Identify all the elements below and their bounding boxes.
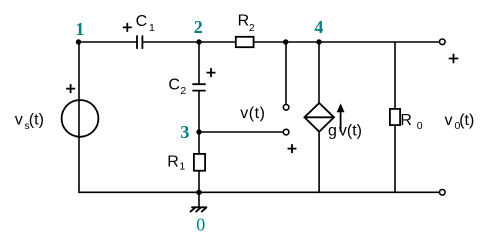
svg-text:C: C [136,13,148,30]
wire node1 to C1 [79,41,137,43]
svg-text:v(t): v(t) [240,105,265,122]
wire node3 to v(t) terminal [199,131,283,133]
plus sign at v(t) [288,144,297,153]
junction node 3 [196,129,201,134]
wire left branch through source [78,42,80,192]
svg-text:0: 0 [417,120,423,132]
svg-text:3: 3 [180,122,189,142]
junction at v(t) tap [283,39,288,44]
terminal circle output bottom [440,190,446,196]
wire node3 to R1 [198,132,200,153]
wire bottom rail [79,191,439,193]
wire C2 to node3 [198,91,200,132]
terminal circle v(t) upper [283,105,289,111]
capacitor C2 [193,84,205,90]
resistor R0 [390,109,400,125]
capacitor C1 [137,36,142,48]
wire R2 to output terminal (top rail) [254,41,440,43]
svg-text:(t): (t) [459,112,474,129]
svg-text:2: 2 [194,17,203,37]
junction node 4 [316,39,321,44]
svg-text:R: R [400,112,412,129]
svg-text:(t): (t) [29,111,44,128]
plus sign at source [66,84,75,93]
svg-text:0: 0 [196,214,205,234]
wire R0 to bottom rail [394,126,396,192]
wire top rail to R0 [394,42,396,108]
resistor R1 [194,154,205,171]
plus sign at output [449,54,459,64]
svg-text:v(t): v(t) [339,123,362,140]
dependent current source G1 diamond [304,103,334,132]
wire R1 to bottom rail [198,172,200,193]
svg-text:2: 2 [249,22,255,34]
ground stub wire [198,192,200,207]
terminal circle v(t) lower [283,129,289,135]
terminal circle output top [440,39,446,45]
svg-text:1: 1 [75,19,84,39]
wire node2 to C2 [198,42,200,84]
svg-text:R: R [238,13,250,30]
svg-text:R: R [167,153,179,170]
junction node 2 [196,39,201,44]
svg-text:C: C [168,76,180,93]
resistor R2 [236,37,254,47]
dependent source arrow [337,103,345,131]
svg-text:g: g [328,123,337,140]
svg-text:4: 4 [314,17,323,37]
wire top rail to v(t) upper terminal [285,42,287,104]
plus sign at C2 [207,68,216,77]
voltage source V1 circle [62,100,99,137]
wire C1 to node2 [142,41,199,43]
svg-text:1: 1 [179,160,185,172]
wire node4 to dependent source [318,42,320,103]
svg-text:v: v [15,111,23,128]
junction node 1 [76,39,81,44]
svg-text:1: 1 [149,22,155,34]
ground symbol [191,207,207,211]
wire node2 to R2 [199,41,236,43]
wire dependent source to bottom rail [318,132,320,193]
svg-text:2: 2 [180,85,186,97]
plus sign at C1 [123,23,132,32]
junction ground node [196,190,201,195]
svg-text:v: v [445,112,453,129]
